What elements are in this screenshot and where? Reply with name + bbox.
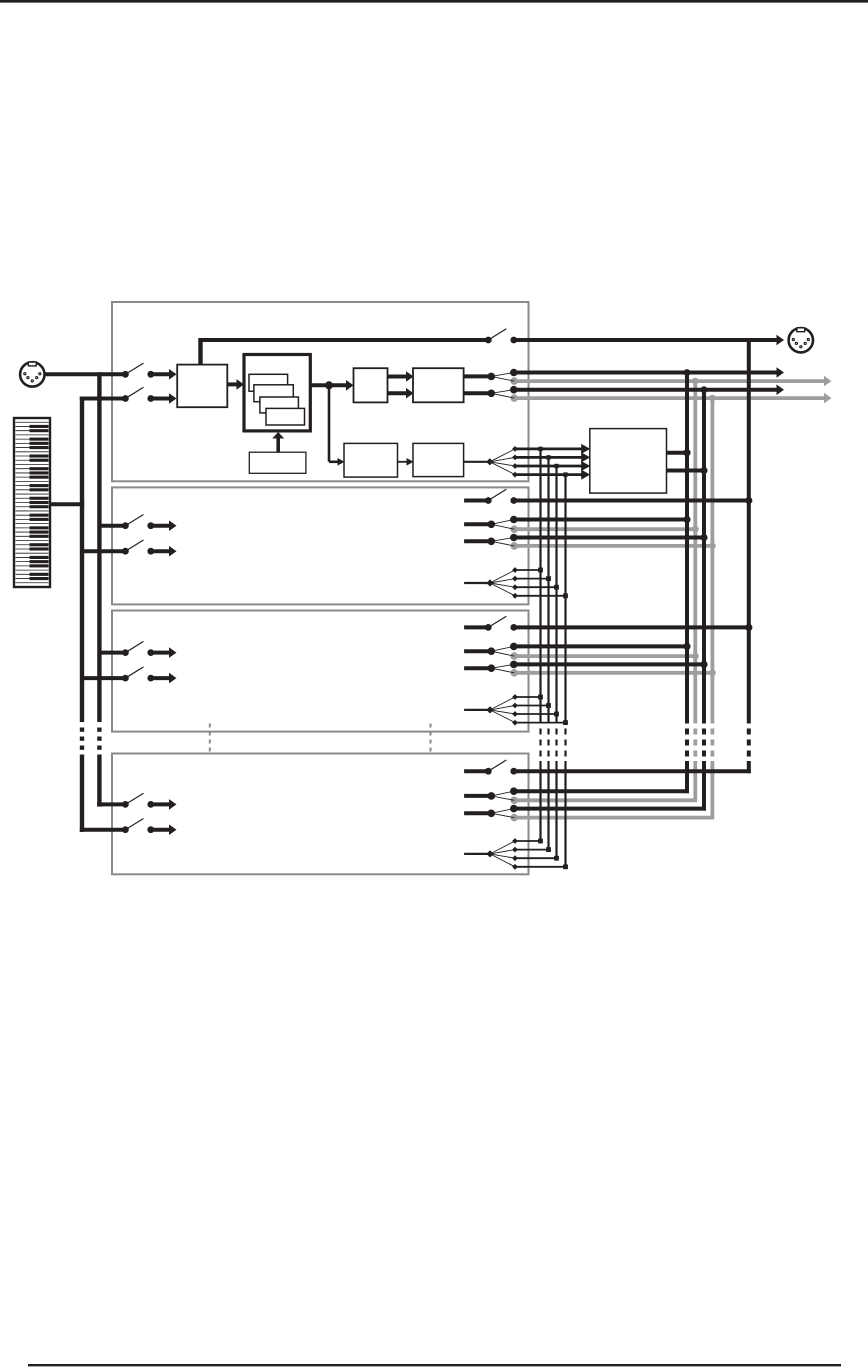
switch S2 row2 [82,540,177,557]
section continuation dashes right [430,724,432,752]
wire box G output 1 [667,449,691,456]
gray bus pair section 4 [514,800,714,817]
black bus 2 [510,384,784,395]
bottom page rule [28,1364,841,1366]
black bus S2 2 [510,534,708,542]
stacked rect 2 [254,385,293,402]
thin vertical v4 [564,475,566,867]
section frame 2 [112,487,529,604]
switch S2 row1 [99,515,176,532]
box stacked container [244,355,310,431]
wire S4 stub1 [464,791,514,800]
black bus S3 2 [510,661,708,669]
midi-in bus vertical [97,372,101,806]
wire S4 switch bus [514,769,751,773]
wire S4 receive fan [464,838,568,870]
section frame 3 [112,611,529,732]
wire S3 switch bus stub [464,625,488,629]
switch S3 row1 [99,641,176,658]
v-vertical junction nubs S1 [538,447,567,477]
section continuation dashes left [209,724,211,752]
wire S3 stub2 [464,664,514,672]
MIDI IN connector [20,362,44,387]
thin vertical v1 [539,449,541,841]
gray dot on gray bus 2 [510,394,715,402]
stacked rect 4 [266,408,305,425]
switch top bus [485,329,517,344]
black bus S2 1 [510,516,691,524]
wire box F to fan diamond [464,458,494,465]
box E [344,443,398,477]
wire buffer output [311,380,354,391]
switch S3 bus [485,616,517,631]
keyboard bus vertical [80,397,84,832]
black bus 1 [510,367,784,378]
wire fan into box G [490,444,590,480]
gray bus 2 to MIDI OUT [514,393,831,404]
gray bus junction dots section 3 [692,653,716,677]
gray fan dots sections [510,525,518,821]
switch S2 bus [485,489,517,504]
black vertical bus 1 [684,369,691,793]
thin vertical v3 [555,466,557,858]
switch S3 row2 [82,667,177,684]
wire box A to tone buffer [227,379,244,390]
gray bus pair section 3 [514,656,712,673]
switch S4 bus [485,760,517,775]
section frame 4 [112,754,529,875]
wire top bus [198,340,488,365]
wire S2 receive fan [464,567,568,599]
section frame 1 [112,302,529,481]
wire box G output 2 [667,467,708,474]
wire S2 stub2 [464,538,514,546]
gray bus pair section 2 [514,529,712,546]
stacked rect 3 [260,397,299,413]
box G tone generator [590,429,667,494]
wire keyboard output [50,502,85,506]
switch S4 row2 [80,819,177,836]
black bus S4 2 [510,805,706,813]
gray bus junction dots section 2 [692,526,716,550]
box settings [249,452,306,473]
wire S2 switch bus stub [464,499,488,503]
wire settings box up arrow [272,432,284,453]
wire box D output 2 [464,390,515,399]
gray dot on gray bus 1 [510,377,698,385]
wire box E to box F [398,458,414,466]
switch S4 row1 [97,793,176,810]
black bus S3 1 [510,643,691,651]
top page rule [0,0,868,3]
wire box D output 1 [464,373,515,382]
wire box C to box D arrows [388,371,414,398]
rightmost vertical bus [747,340,751,773]
switch S1 row2 [122,387,177,404]
wire top bus to MIDI OUT [514,335,784,346]
black bus S4 1 [510,787,689,795]
wire S3 switch bus [514,624,753,631]
wire S2 switch bus [514,497,753,504]
box C [354,368,388,402]
gray bus 1 to MIDI OUT [514,376,831,387]
keyboard [14,418,50,587]
switch S1 row1 [122,363,177,380]
wire S3 receive fan [464,694,568,725]
wire MIDI IN to switch [46,372,126,376]
stacked rect 1 [249,374,288,391]
gray vertical bus 1 [693,381,697,800]
wire S3 stub1 [464,646,514,656]
box A midi receive [177,365,227,408]
box D [413,368,464,402]
MIDI OUT connector [789,328,813,353]
wire S2 stub1 [464,520,514,530]
wire junction drop to box E [329,385,345,465]
wire S4 switch bus stub [464,769,488,773]
thin vertical v2 [547,457,549,849]
wire S4 stub2 [464,809,514,818]
black vertical bus 2 [701,386,708,810]
gray vertical bus 2 [711,398,715,817]
box F [413,443,464,476]
wire S1 row2 [80,397,126,401]
